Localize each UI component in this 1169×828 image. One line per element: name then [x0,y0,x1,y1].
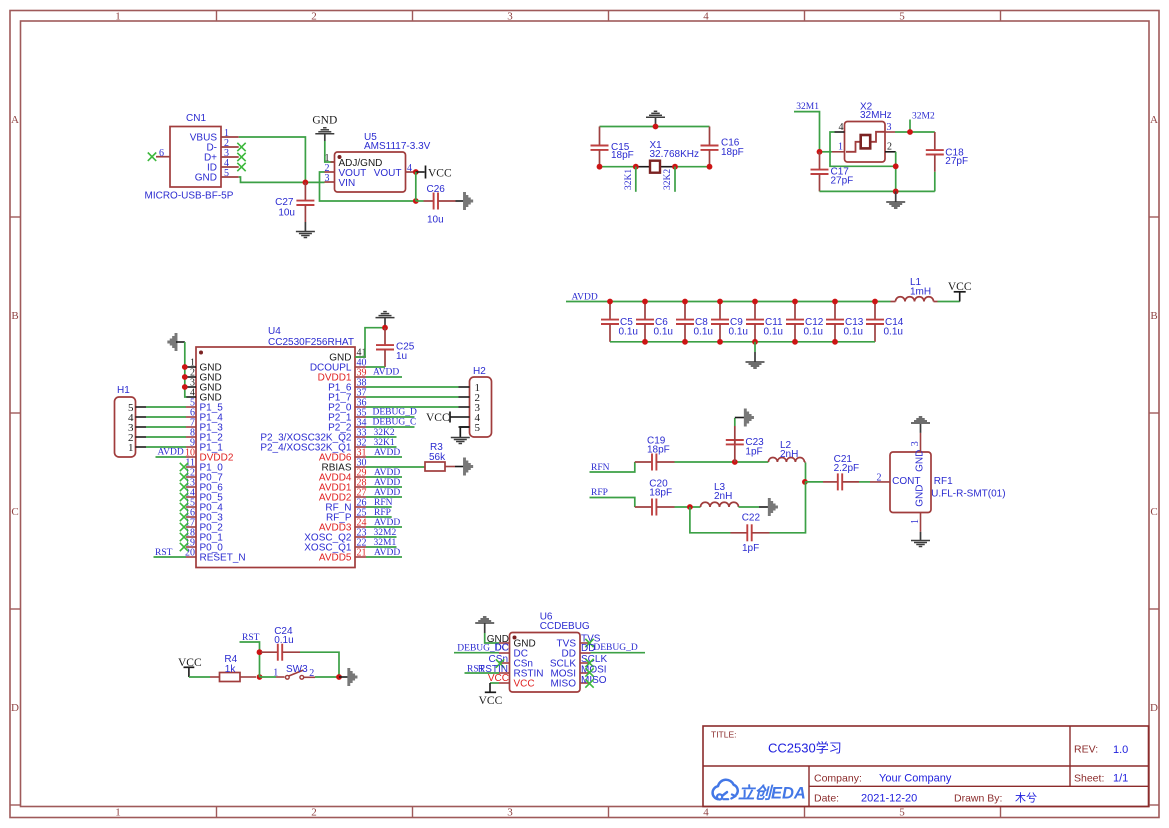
inductor L3 2nH [701,482,739,507]
svg-text:4: 4 [839,122,844,133]
svg-text:32M2: 32M2 [912,111,935,121]
ground right of L3 [759,498,777,516]
label GND U6 [487,634,509,645]
net label AVDD pin27 [366,488,402,498]
no-connect U4 pin12 [180,473,188,481]
svg-text:4: 4 [703,11,709,23]
svg-text:1k: 1k [225,664,237,675]
no-connect U6 TVS [585,639,593,647]
svg-text:D: D [1150,702,1158,714]
svg-text:1/1: 1/1 [1113,773,1128,785]
svg-text:0.1u: 0.1u [884,327,903,338]
junction SW3 right [336,674,342,680]
junction U4 pin1 [182,364,188,370]
junction R4 right [257,674,263,680]
no-connect pin6 CN1 [148,153,156,161]
connector H1 [115,385,147,457]
wire U4 to H2 [366,396,459,398]
wire C21 to RF1 [859,481,870,483]
power flag GND (above U5) [312,115,337,142]
svg-text:VOUT: VOUT [374,168,402,179]
svg-text:U.FL-R-SMT(01): U.FL-R-SMT(01) [931,489,1005,500]
no-connect U4 pin19 [180,543,188,551]
svg-text:18pF: 18pF [649,488,672,499]
svg-text:GND: GND [915,450,926,472]
capacitor C8 0.1u [676,302,713,342]
svg-text:0.1u: 0.1u [654,327,673,338]
ground below AVDD rail [746,342,765,368]
no-connect U6 CSn [496,659,504,667]
svg-text:立创EDA: 立创EDA [738,784,806,803]
svg-text:VCC: VCC [428,168,452,180]
crystal X1 32.768KHz [636,140,699,173]
no-connect U4 pin14 [180,493,188,501]
wire H1 to U4 [146,436,186,438]
no-connect pin3 CN1 [237,153,245,161]
net label RFN pin26 [366,498,393,508]
wire VCC flag to U6 [490,682,499,684]
svg-text:10u: 10u [278,208,295,219]
svg-text:TITLE:: TITLE: [711,730,737,740]
svg-text:1mH: 1mH [910,287,931,298]
wire U4 pin30 to R3 [366,466,425,468]
svg-text:2nH: 2nH [780,449,798,460]
svg-text:1: 1 [128,442,134,454]
capacitor C15 18pF [591,127,634,167]
svg-text:1: 1 [838,142,843,153]
svg-text:B: B [1150,310,1157,322]
svg-text:C: C [1150,506,1157,518]
net label AVDD pin21 [366,548,402,558]
svg-text:3: 3 [325,173,330,184]
crystal X2 32MHz [832,102,896,163]
svg-text:1.0: 1.0 [1113,744,1128,756]
wire C22 left leg [690,507,731,533]
resistor R4 1k [210,654,256,682]
net label 32K2 [663,167,675,192]
net label RST (switch) [240,633,260,677]
svg-text:D: D [11,702,19,714]
wire U5 pin4 down [415,172,417,201]
svg-text:AVDD: AVDD [373,368,399,378]
svg-text:A: A [1150,114,1158,126]
wire VBUS [239,137,306,182]
no-connect U4 pin16 [180,513,188,521]
capacitor C21 2.2pF [805,454,859,490]
svg-text:3: 3 [507,11,513,23]
capacitor C11 0.1u [746,302,783,342]
svg-text:AVDD5: AVDD5 [319,553,352,564]
wire X1 bottom rail right [675,166,710,168]
label CSn U6 [489,654,508,665]
svg-text:3: 3 [887,122,892,133]
capacitor C27 10u [275,182,314,222]
svg-text:0.1u: 0.1u [274,635,293,646]
svg-text:4: 4 [703,807,709,819]
capacitor C16 18pF [701,127,744,167]
svg-text:5: 5 [899,807,905,819]
svg-text:AVDD: AVDD [158,448,184,458]
svg-text:3: 3 [507,807,513,819]
wire X2 pin4 loop [830,132,896,166]
svg-text:3: 3 [910,441,921,446]
capacitor C24 0.1u [261,626,300,661]
ground right of C26 [456,192,472,210]
connector RF1 U.FL-R-SMT(01) [870,441,1006,524]
net label 32K1 [624,167,636,192]
net label DEBUG_C [366,418,416,428]
svg-text:C: C [11,506,18,518]
junction 32K2 [672,164,678,170]
net label RFN [590,462,635,473]
junction 32M1 node [817,149,823,155]
svg-text:0.1u: 0.1u [764,327,783,338]
svg-text:0.1u: 0.1u [694,327,713,338]
ground above C23 [735,409,753,427]
wire X2 pin2 down [895,152,897,192]
junction C21 node [802,479,808,485]
junction U4 pin2 [182,374,188,380]
svg-text:2nH: 2nH [714,491,732,502]
wire X2 ground rail [820,190,935,192]
capacitor C14 0.1u [866,302,904,342]
ground right of SW3 [339,668,356,686]
junction AVDD top [792,299,798,305]
junction AVDD bottom [752,339,758,345]
svg-text:5: 5 [475,422,481,434]
junction L3 node [687,504,693,510]
svg-text:2: 2 [311,807,317,819]
svg-text:SW3: SW3 [286,664,308,675]
wire U4 to H2 [366,406,459,408]
svg-text:Company:: Company: [814,772,862,784]
net label AVDD pin39 [366,368,402,378]
svg-text:GND: GND [312,115,337,127]
svg-text:CN1: CN1 [186,113,206,124]
ground below C27 [296,222,315,238]
svg-text:2021-12-20: 2021-12-20 [861,793,917,805]
svg-text:5: 5 [224,168,229,179]
junction AVDD bottom [642,339,648,345]
junction X1 bottom right [707,164,713,170]
connector CN1 MICRO-USB-BF-5P [145,113,239,202]
wire GND flag to U5 pin1 [325,141,335,162]
resistor R3 56k [425,442,455,471]
wire L3 right [739,506,760,508]
capacitor C20 18pF [635,479,675,516]
svg-text:1: 1 [273,668,278,679]
svg-text:VCC: VCC [479,695,503,707]
junction VIN node [303,180,309,186]
label MISO U6 right [581,675,607,686]
svg-text:C26: C26 [427,184,446,195]
ground H2 pin5 [451,427,470,444]
capacitor C18 27pF [926,132,968,191]
svg-text:0.1u: 0.1u [619,327,638,338]
svg-text:DC: DC [495,643,509,654]
junction AVDD top [752,299,758,305]
ground above RF1 [911,417,930,442]
wire AVDD rail [566,301,891,303]
junction AVDD top [832,299,838,305]
svg-text:MISO: MISO [550,679,576,690]
svg-text:SCLK: SCLK [581,654,607,665]
wire VOUT left loop [320,172,416,201]
junction AVDD bottom [682,339,688,345]
svg-text:RESET_N: RESET_N [200,553,246,564]
svg-text:Drawn By:: Drawn By: [954,793,1002,805]
junction AVDD top [642,299,648,305]
capacitor C5 0.1u [601,302,638,342]
svg-text:B: B [11,310,18,322]
power flag VCC (at U5 pin4) [416,166,452,180]
svg-text:6: 6 [159,148,164,159]
svg-text:18pF: 18pF [721,147,744,158]
power flag VCC (below U6) [479,683,503,707]
svg-text:1pF: 1pF [742,543,759,554]
junction U4 pin3 [182,384,188,390]
svg-text:0.1u: 0.1u [844,327,863,338]
capacitor C26 10u [416,184,456,226]
IC U4 CC2530F256RHAT [185,326,367,568]
capacitor C13 0.1u [826,302,864,342]
svg-text:DEBUG_D: DEBUG_D [373,408,417,418]
svg-text:REV:: REV: [1074,744,1098,756]
junction X2 mid [893,163,899,169]
power flag VCC (H2 pin4) [426,412,459,425]
junction AVDD top [872,299,878,305]
svg-text:18pF: 18pF [647,445,670,456]
net label AVDD pin24 [366,518,402,528]
svg-text:H1: H1 [117,385,130,396]
capacitor C12 0.1u [786,302,824,342]
svg-text:32.768KHz: 32.768KHz [650,149,699,160]
capacitor C17 27pF [811,152,854,192]
net label 32M2 pin23 [366,528,397,538]
svg-text:Sheet:: Sheet: [1074,772,1104,784]
svg-text:1: 1 [910,519,921,524]
svg-text:32M1: 32M1 [796,102,819,112]
svg-text:C27: C27 [275,197,294,208]
svg-text:DEBUG_D: DEBUG_D [593,643,637,653]
junction X1 bottom left [597,164,603,170]
svg-text:32MHz: 32MHz [860,110,892,121]
power flag VCC (R4) [178,657,202,677]
switch SW3 [260,664,316,679]
ground above U6 [475,617,494,633]
wire X1 top rail [600,126,710,128]
wire H1 to U4 [146,446,186,448]
title block [703,726,1149,807]
svg-text:1: 1 [115,807,121,819]
net label 32M1 [794,102,820,152]
junction X2 rail [893,189,899,195]
label DC U6 [495,643,509,654]
svg-text:AMS1117-3.3V: AMS1117-3.3V [364,141,431,152]
wire CN1 GND to VIN node [239,177,325,182]
net label AVDD rail [572,293,598,303]
label SCLK U6 right [581,654,607,665]
net label 32K2 pin33 [366,428,397,438]
regulator U5 AMS1117-3.3V [325,132,431,192]
ground below RF1 [911,523,930,547]
wire U4 pin40 [366,366,385,368]
junction AVDD top [682,299,688,305]
capacitor C23 1pF [726,426,764,462]
wire L1 to VCC [938,301,960,303]
wire H1 to U4 [146,406,186,408]
junction AVDD bottom [832,339,838,345]
svg-text:GND: GND [195,173,217,184]
label RSTIN U6 [478,664,508,675]
wire H1 to U4 [146,426,186,428]
net label AVDD pin28 [366,478,402,488]
svg-text:VCC: VCC [426,412,450,424]
junction AVDD bottom [792,339,798,345]
no-connect U6 MISO [585,679,593,687]
svg-text:RFP: RFP [591,488,608,498]
wire L2 down [805,463,807,483]
net label 32M2 [910,111,935,132]
net label AVDD pin10 [156,448,187,458]
wire U4 pin41 to gnd [355,328,385,357]
svg-text:A: A [11,114,19,126]
ground right of R3 [455,458,472,476]
no-connect U4 pin13 [180,483,188,491]
ground below X2 [886,191,905,208]
svg-text:Your Company: Your Company [879,772,952,784]
no-connect U4 pin17 [180,523,188,531]
svg-text:10u: 10u [427,215,444,226]
capacitor C22 1pF [731,513,770,554]
no-connect U6 MOSI [585,668,593,676]
junction 32M2 node [907,129,913,135]
connector H2 [459,366,492,437]
net label 32K1 pin32 [366,438,397,448]
wire X2 pin1 [820,151,833,153]
svg-text:U4: U4 [268,326,281,337]
junction C24 left [257,649,263,655]
svg-text:VCC: VCC [514,679,535,690]
wire SW3 to gnd [315,676,339,678]
capacitor C19 18pF [635,436,675,471]
wire X2 pin3 [895,131,935,133]
svg-text:GND: GND [915,485,926,507]
junction U5 pin4 [413,169,419,175]
svg-text:1: 1 [115,11,121,23]
wire VCC to R4 [189,676,210,678]
capacitor C25 1u [376,328,415,367]
junction C23 node [732,459,738,465]
svg-text:2: 2 [309,668,314,679]
net label RST (U6) [465,664,500,674]
svg-text:VIN: VIN [339,178,356,189]
svg-text:27pF: 27pF [831,176,854,187]
label VCC U6 [488,673,509,684]
svg-text:CC2530学习: CC2530学习 [768,741,842,756]
label DD U6 right [581,643,595,654]
inductor L2 2nH [768,440,805,463]
svg-text:MISO: MISO [581,675,607,686]
svg-text:MICRO-USB-BF-5P: MICRO-USB-BF-5P [145,191,234,202]
svg-text:1pF: 1pF [745,447,762,458]
wire X1 bottom rail left [600,166,636,168]
svg-text:0.1u: 0.1u [729,327,748,338]
ground above X1 [646,111,665,126]
label MOSI U6 right [581,665,607,676]
svg-text:2: 2 [311,11,317,23]
no-connect U6 SCLK [585,659,593,667]
svg-text:5: 5 [899,11,905,23]
svg-text:H2: H2 [473,366,486,377]
junction X1 top [653,124,659,130]
net label DEBUG_D [366,408,417,418]
svg-text:木兮: 木兮 [1015,791,1037,805]
svg-text:MOSI: MOSI [581,665,607,676]
no-connect pin2 CN1 [237,143,245,151]
no-connect U4 pin11 [180,463,188,471]
svg-text:21: 21 [357,548,367,559]
power flag VCC (at L1) [948,281,972,302]
svg-text:CC2530F256RHAT: CC2530F256RHAT [268,337,354,348]
label TVS U6 right [581,633,601,644]
svg-text:0.1u: 0.1u [804,327,823,338]
svg-text:56k: 56k [429,452,446,463]
svg-text:2: 2 [877,473,882,484]
capacitor C6 0.1u [636,302,673,342]
svg-text:32K2: 32K2 [663,169,673,190]
wire U4 gnd pins [185,342,187,397]
no-connect pin4 CN1 [237,163,245,171]
svg-text:4: 4 [407,163,412,174]
wire C24 to SW3 right [300,652,339,677]
no-connect U4 pin18 [180,533,188,541]
net label DEBUG_DC [454,643,508,653]
net label 32M1 pin22 [366,538,397,548]
ground at U4 pins1-4 [169,333,185,351]
svg-text:2.2pF: 2.2pF [834,463,860,474]
wire C22 right leg [770,482,806,533]
logo 立创EDA [713,780,806,803]
wire C20 to L3 [675,506,701,508]
svg-text:18pF: 18pF [611,150,634,161]
junction VCC node C26 [413,198,419,204]
ground above C25 [376,312,395,328]
svg-text:C22: C22 [742,513,761,524]
svg-text:CCDEBUG: CCDEBUG [540,621,590,632]
no-connect U4 pin15 [180,503,188,511]
IC U6 CCDEBUG [499,612,591,693]
wire AVDD gnd rail [610,341,875,343]
net label RFP [590,488,635,507]
svg-text:Date:: Date: [814,793,839,805]
svg-text:27pF: 27pF [945,156,968,167]
net label AVDD pin29 [366,468,402,478]
junction C25 top [382,325,388,331]
wire C19 to L2 [675,461,769,463]
wire H1 to U4 [146,416,186,418]
svg-text:2: 2 [887,142,892,153]
net label DEBUG_D (U6) [591,643,646,653]
junction AVDD top [607,299,613,305]
svg-text:1u: 1u [396,351,407,362]
svg-text:DEBUG_C: DEBUG_C [373,418,417,428]
wire gnd to U6 pin GND [485,633,499,643]
junction AVDD top [717,299,723,305]
svg-text:RF1: RF1 [934,476,953,487]
svg-text:32K1: 32K1 [624,169,634,190]
inductor L1 1mH [891,277,938,302]
